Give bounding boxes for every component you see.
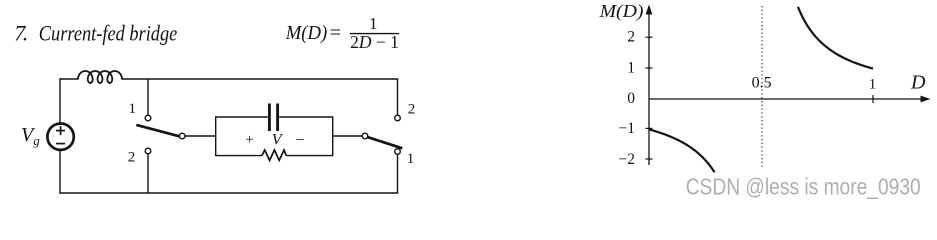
wire: left rail bottom (source to bottom rail) [59,150,61,194]
inductor [78,71,122,83]
x-axis tick D=1 [872,95,874,103]
svg-text:D: D [910,71,926,93]
wire: top rail left of inductor [60,78,79,80]
graph y-axis M(D) [646,5,653,166]
left switch contact 1 [145,115,151,121]
left switch common node [179,133,185,139]
svg-text:1: 1 [407,151,415,167]
svg-text:1: 1 [369,14,378,33]
svg-text:−2: −2 [619,151,636,168]
wire: top rail down to right contact 2 [397,79,399,115]
svg-text:M(D): M(D) [285,22,328,44]
y tick labels [619,29,636,168]
right switch contact 2 [395,115,401,121]
svg-text:M(D): M(D) [599,1,644,22]
dotted line at D=0.5 [761,6,763,169]
wire: left switch common to bridge box [185,135,216,137]
svg-text:7.: 7. [14,20,28,45]
wire: left switch contact 2 to bottom rail [147,154,149,193]
svg-text:2: 2 [128,149,136,165]
left switch contact 2 [145,148,151,154]
svg-text:CSDN @less is more_0930: CSDN @less is more_0930 [686,174,921,200]
svg-text:2: 2 [627,29,635,46]
svg-text:Current-fed bridge: Current-fed bridge [39,20,178,45]
svg-text:−: − [295,132,304,149]
svg-text:0: 0 [627,90,635,107]
y-axis ticks [646,37,653,159]
svg-text:=: = [330,22,341,44]
svg-text:Vg: Vg [21,124,40,148]
svg-text:−1: −1 [619,120,636,137]
wire: branch down to left switch contact 1 [147,79,149,115]
svg-text:+: + [245,132,253,148]
title: 7. Current-fed bridge [14,20,177,45]
svg-text:1: 1 [129,101,137,117]
label + V - [245,131,304,149]
svg-text:1: 1 [869,77,877,93]
wire: bridge box to right switch common [333,135,363,137]
graph x-axis D [649,96,931,103]
formula M(D) = 1/(2D-1) [285,14,399,52]
wire: top rail right of inductor [122,78,399,80]
svg-text:2: 2 [408,102,416,118]
left switch blade [136,125,179,136]
voltage source Vg [47,124,73,150]
svg-text:V: V [272,131,284,148]
formula fraction bar [350,33,399,35]
resistor (zigzag) [262,150,286,160]
wire: bottom rail [59,192,398,194]
right switch blade [368,137,403,148]
wire: right contact 1 down to bottom rail [397,154,399,193]
curve M(D) right branch [798,7,873,69]
capacitor plates [269,104,277,132]
svg-text:1: 1 [627,60,635,77]
curve M(D) left branch [649,129,714,172]
svg-text:2D − 1: 2D − 1 [350,32,399,52]
wire: left rail top (source to top rail) [59,78,61,123]
right switch contact 1 [395,149,401,155]
right switch common node [362,133,368,139]
bridge box (load network) [216,117,333,156]
